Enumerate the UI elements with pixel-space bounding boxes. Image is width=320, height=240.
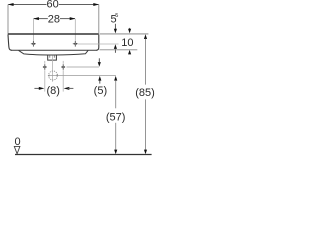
dimension (8) arrow right	[64, 87, 70, 90]
dimension 60 line	[8, 4, 98, 6]
tap hole right	[73, 41, 78, 47]
dimension (8) line right	[68, 87, 74, 89]
rim extension line right	[100, 33, 149, 35]
dimension 5.5 leader	[114, 24, 116, 30]
extension line right tap hole	[74, 19, 76, 41]
dimension (57) line	[115, 80, 117, 108]
dimension 60 arrow right	[93, 3, 99, 6]
dimension (85) top arrow	[144, 34, 147, 39]
dimension (8) arrow left	[39, 87, 45, 90]
svg-text:(5): (5)	[94, 85, 107, 97]
extension line left for 60	[7, 5, 9, 34]
drain circle	[49, 71, 58, 80]
drain horizontal line to right	[48, 75, 116, 77]
dimension 5.5 lower arrow	[114, 44, 117, 49]
svg-text:(8): (8)	[46, 85, 59, 97]
dimension (5) upper arrow	[98, 58, 100, 62]
svg-text:(85): (85)	[135, 87, 155, 99]
svg-text:5: 5	[115, 13, 118, 19]
dimension 28 arrow right	[70, 17, 76, 20]
dimension 10 upper arrow	[129, 28, 131, 29]
svg-text:60: 60	[46, 0, 58, 11]
dimension 28 arrow left	[33, 17, 39, 20]
dimension 28 line	[34, 18, 75, 20]
tap hole left	[31, 41, 36, 47]
svg-text:(57): (57)	[106, 111, 126, 123]
dimension (8) line left	[34, 87, 40, 89]
extension line right for 60	[98, 5, 100, 34]
floor line	[15, 154, 152, 156]
fixing hole right	[61, 64, 65, 70]
dimension 10 lower arrow	[128, 50, 131, 55]
vertical centerline through drain	[51, 56, 53, 82]
extension line left tap hole	[32, 19, 34, 41]
drain stub	[48, 55, 57, 60]
fixing hole vertical extension lines	[44, 70, 46, 91]
dimension (85) bottom arrow	[144, 150, 147, 155]
svg-text:28: 28	[48, 14, 60, 26]
basin right edge	[96, 35, 99, 51]
apron bottom extension line	[100, 49, 138, 51]
tap hole extension line to right	[78, 43, 119, 45]
drain stub inner ticks	[49, 55, 51, 58]
bowl silhouette	[19, 50, 89, 55]
basin left edge	[8, 35, 12, 51]
fixing hole extension line to right	[67, 66, 100, 68]
dimension 60 arrow left	[8, 3, 14, 6]
fixing hole left	[43, 64, 47, 70]
datum triangle	[14, 146, 20, 153]
dimension (85) line	[145, 39, 147, 85]
dimension 5.5 upper arrow	[114, 29, 117, 34]
basin bottom apron line	[12, 49, 97, 51]
dimension (57) top arrow	[114, 76, 117, 81]
basin rim top edge	[8, 33, 99, 35]
dimension (5) lower arrow	[98, 76, 101, 81]
dimension (57) bottom arrow	[114, 150, 117, 155]
svg-text:10: 10	[121, 37, 133, 49]
